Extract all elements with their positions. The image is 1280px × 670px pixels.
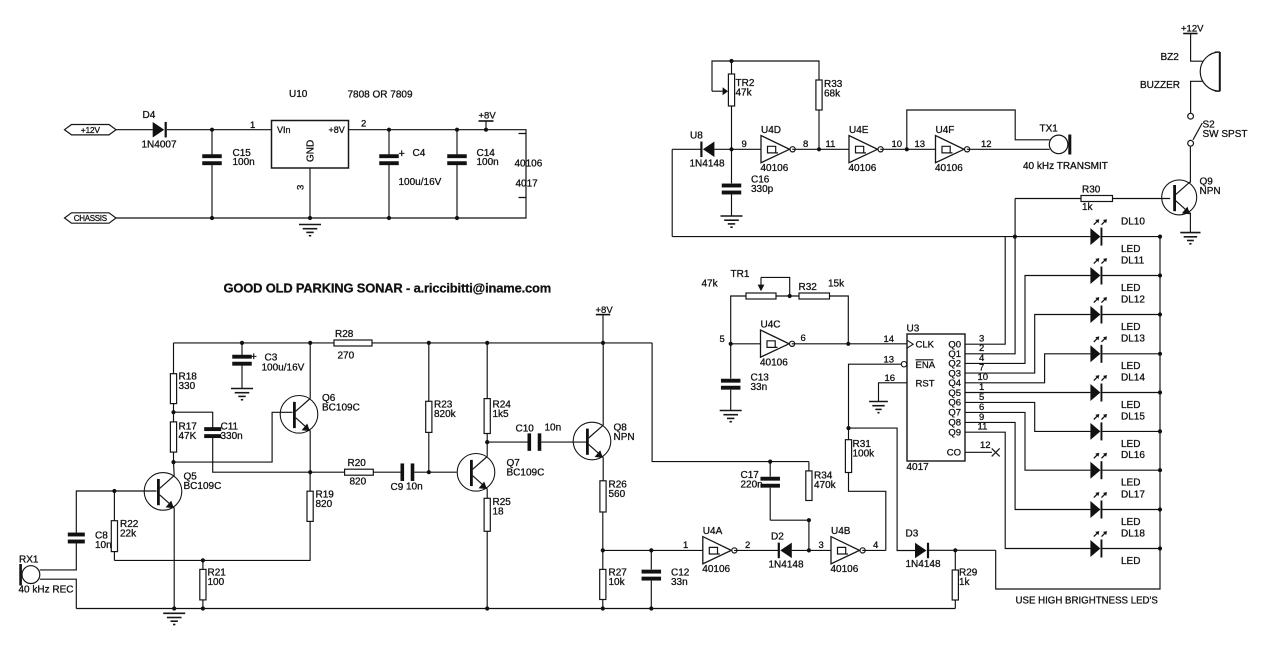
svg-text:NPN: NPN (1200, 186, 1221, 197)
resistor R34 (808, 462, 810, 471)
svg-text:U8: U8 (690, 131, 703, 142)
wire feedback row R22 to R19 (114, 552, 310, 560)
svg-text:CHASSIS: CHASSIS (74, 214, 107, 223)
wire Q5 base net (76, 491, 156, 533)
svg-text:2: 2 (361, 119, 366, 130)
node R21 bottom at rail (201, 606, 205, 610)
node Q6 collector at rail (308, 341, 312, 345)
svg-text:U4C: U4C (761, 319, 781, 330)
wire U3 Q0 to LED DL10 (965, 237, 1090, 345)
wire DL17 cathode to bus (1102, 509, 1160, 511)
resistor R23 (428, 343, 430, 401)
svg-text:U4E: U4E (849, 125, 869, 136)
svg-text:RST: RST (916, 379, 935, 390)
wire Q8 collector to rail (602, 343, 604, 425)
wire LED cathode bus (996, 237, 1160, 589)
svg-text:40106: 40106 (849, 163, 877, 174)
svg-text:1: 1 (683, 540, 688, 551)
diode D3 (915, 543, 929, 559)
svg-text:22k: 22k (120, 529, 137, 540)
wire U10 GND pin 3 (309, 168, 311, 218)
svg-text:D2: D2 (771, 532, 784, 543)
node C3 junction (240, 341, 244, 345)
svg-text:33n: 33n (671, 577, 688, 588)
node +8V entry (601, 341, 605, 345)
node D2/R34/U4B junction (807, 548, 811, 552)
LED DL14 (1090, 375, 1107, 401)
node Q5 collector junction (171, 460, 175, 464)
node C12 junction (649, 548, 653, 552)
svg-text:13: 13 (915, 139, 926, 150)
node TR1 wiper junction (788, 294, 792, 298)
svg-text:2: 2 (745, 540, 750, 551)
wire chassis ground rail (116, 198, 526, 219)
transducer RX1 (19, 564, 22, 586)
svg-text:33n: 33n (751, 382, 768, 393)
svg-text:12: 12 (981, 139, 992, 150)
svg-text:U10: U10 (289, 89, 308, 100)
svg-text:330p: 330p (751, 184, 774, 195)
resistor R29 (954, 550, 956, 570)
svg-text:47K: 47K (179, 431, 197, 442)
wire U3 Q4 to LED DL13 (965, 354, 1090, 383)
svg-text:C10: C10 (516, 424, 535, 435)
node R18/R17/C11 junction (173, 404, 175, 413)
regulator U10 body (272, 121, 349, 169)
transducer TX1 (1049, 135, 1068, 154)
wire TR1 left to U4C input (731, 296, 746, 344)
wire ENA net (849, 364, 902, 428)
wire Q9 collector to switch (1189, 147, 1191, 183)
wire U3 Q2 to LED DL11 (965, 276, 1090, 364)
svg-text:100: 100 (208, 577, 225, 588)
svg-text:BZ2: BZ2 (1161, 52, 1180, 63)
wire C10 to Q8 base (541, 441, 587, 443)
wire Q5 collector to Q6 base (174, 412, 293, 462)
wire DL16 cathode to bus (1102, 469, 1160, 471)
svg-text:DL10: DL10 (1121, 217, 1145, 228)
svg-text:270: 270 (338, 351, 355, 362)
wire U3 CO stub (965, 451, 992, 453)
node R27 bottom at rail (601, 606, 605, 610)
counter U3 body (907, 334, 965, 461)
ground below C13 (720, 411, 742, 422)
wire Q7 collector to C10 node (486, 442, 488, 456)
svg-text:820: 820 (350, 477, 367, 488)
wire oscillator top feedback (712, 61, 819, 91)
svg-text:1N4148: 1N4148 (769, 560, 804, 571)
transistor Q8 (573, 422, 611, 460)
wire U10 output pin 2 rail (349, 130, 527, 134)
resistor R22 (113, 491, 115, 521)
resistor R33 (816, 80, 822, 110)
inverter U4E (849, 136, 883, 163)
svg-text:10n: 10n (95, 540, 112, 551)
ground below Q9 (1180, 233, 1200, 244)
power bracket to 40106 and 4017 supplies (519, 134, 527, 198)
node U4C input junction (729, 342, 733, 346)
inverter U4B (831, 537, 865, 564)
wire Q9 emitter to ground (1189, 213, 1191, 233)
node bus junction DL14 (1158, 390, 1162, 394)
svg-text:R28: R28 (335, 329, 354, 340)
svg-text:68k: 68k (824, 89, 841, 100)
svg-text:330n: 330n (221, 431, 243, 442)
wire DL14 cathode to bus (1102, 392, 1160, 394)
svg-text:1k: 1k (1082, 202, 1094, 213)
resistor R30 (1081, 196, 1113, 202)
wire node to U4D input (732, 148, 762, 150)
node R23 bottom junction (427, 470, 431, 474)
wire R31 bottom to U4B output (849, 473, 886, 551)
wire Q6 emitter to node (309, 431, 311, 473)
trimmer TR2 (731, 61, 733, 74)
svg-text:RX1: RX1 (19, 555, 39, 566)
svg-text:LED: LED (1121, 556, 1140, 567)
svg-text:LED: LED (1121, 517, 1140, 528)
resistor R18 (173, 343, 175, 374)
transistor Q6 (280, 396, 318, 434)
node Q6 emitter junction (308, 470, 312, 474)
wire U4E out to U4F in (880, 148, 935, 150)
svg-text:NPN: NPN (614, 432, 635, 443)
svg-text:+8V: +8V (596, 305, 614, 316)
svg-text:10k: 10k (609, 577, 626, 588)
svg-text:DL14: DL14 (1121, 372, 1145, 383)
svg-text:3: 3 (819, 540, 824, 551)
svg-text:47k: 47k (702, 279, 719, 290)
wire +12V to buzzer (1191, 34, 1203, 62)
resistor R28 in rail (334, 340, 372, 346)
node R29 top junction (953, 548, 957, 552)
svg-text:DL13: DL13 (1121, 334, 1145, 345)
wire RX1 bottom to ground rail (40, 579, 77, 608)
svg-text:3: 3 (296, 185, 307, 190)
wire U4A out to D2 (734, 549, 779, 551)
node R22 junction (112, 489, 116, 493)
node R25 bottom at rail (485, 606, 489, 610)
svg-text:40106: 40106 (761, 163, 789, 174)
svg-text:+8V: +8V (329, 125, 345, 135)
node R26/R27 junction (601, 548, 605, 552)
LED DL10 (1090, 219, 1107, 245)
LED DL18 (1090, 531, 1107, 557)
svg-text:47k: 47k (736, 88, 753, 99)
svg-text:U4A: U4A (703, 526, 723, 537)
svg-text:LED: LED (1121, 244, 1140, 255)
svg-text:DL18: DL18 (1121, 528, 1145, 539)
capacitor C14 (456, 130, 458, 155)
node R24 top at rail (485, 341, 489, 345)
svg-text:330: 330 (179, 381, 196, 392)
wire R32 to U4C output (830, 296, 849, 344)
svg-text:10n: 10n (406, 482, 423, 493)
wire DL13 cathode to bus (1102, 353, 1160, 355)
svg-text:U4B: U4B (831, 526, 851, 537)
wire R30 row to Q9 base (1015, 198, 1081, 200)
ground below C3 (231, 389, 253, 400)
wire DL11 cathode to bus (1102, 275, 1160, 277)
wire U4C out to U3 CLK (792, 343, 907, 345)
wire U8 anode to node (714, 148, 731, 150)
svg-text:GND: GND (306, 140, 317, 162)
svg-text:470k: 470k (814, 480, 837, 491)
svg-text:R30: R30 (1082, 185, 1101, 196)
svg-text:40106: 40106 (760, 357, 788, 368)
svg-text:U4D: U4D (761, 125, 781, 136)
wire Q6 emitter to R20 (310, 471, 344, 473)
svg-text:+: + (399, 148, 405, 160)
svg-text:LED: LED (1121, 439, 1140, 450)
svg-text:DL11: DL11 (1121, 255, 1145, 266)
svg-text:CLK: CLK (916, 340, 935, 351)
svg-text:U3: U3 (907, 324, 920, 335)
resistor R21 (202, 560, 204, 569)
svg-text:40106: 40106 (935, 163, 963, 174)
capacitor C11 (204, 427, 221, 438)
wire R34 bottom to row (808, 520, 810, 550)
svg-text:U4F: U4F (936, 125, 955, 136)
wire Q7 emitter to R25 (486, 489, 488, 499)
svg-text:Q9: Q9 (948, 428, 961, 439)
node CHASSIS tag (65, 213, 117, 223)
wire R20 to C9 (373, 471, 400, 473)
capacitor C10 (528, 433, 542, 451)
transistor Q9 (1162, 180, 1197, 215)
node bus junction DL18 (1158, 546, 1162, 550)
capacitor C8 (68, 533, 85, 544)
svg-text:1k5: 1k5 (493, 409, 510, 420)
svg-text:1k: 1k (959, 577, 971, 588)
svg-text:40106: 40106 (702, 564, 730, 575)
LED DL13 (1090, 336, 1107, 362)
buzzer BZ2 (1200, 52, 1220, 91)
wire +12V tag to D4 anode (116, 129, 153, 131)
svg-text:100n: 100n (233, 157, 255, 168)
capacitor C9 (401, 463, 415, 481)
inverter U4D (761, 136, 795, 163)
svg-text:C9: C9 (391, 482, 404, 493)
capacitor C4 electrolytic (388, 130, 390, 155)
svg-text:R32: R32 (799, 282, 818, 293)
wire +8V distribution rail (174, 342, 653, 344)
LED DL11 (1090, 258, 1107, 284)
node bus junction DL13 (1158, 352, 1162, 356)
svg-text:820k: 820k (434, 409, 457, 420)
wire U4C input (731, 343, 761, 345)
svg-text:DL16: DL16 (1121, 450, 1145, 461)
resistor R32 (799, 293, 830, 299)
wire C17 to R34 bottom (770, 519, 809, 521)
wire U3 Q1 to buzzer driver R30 (965, 199, 1015, 354)
wire switch to buzzer (1191, 81, 1203, 113)
svg-text:220n: 220n (741, 480, 763, 491)
wire U3 Q5 to LED DL14 (965, 392, 1090, 394)
wire ENA node to D3 anode (849, 428, 916, 550)
svg-text:1N4148: 1N4148 (690, 159, 725, 170)
wire C10 row (487, 441, 527, 443)
svg-text:7808 OR 7809: 7808 OR 7809 (348, 90, 413, 101)
node R30 tap junction on DL10 row (1013, 235, 1017, 239)
svg-text:4: 4 (873, 540, 878, 551)
svg-text:DL12: DL12 (1121, 294, 1145, 305)
svg-text:+: + (251, 351, 257, 363)
wire DL15 cathode to bus (1102, 430, 1160, 432)
diode D2 (778, 543, 792, 559)
svg-text:4017: 4017 (907, 462, 930, 473)
svg-text:LED: LED (1121, 361, 1140, 372)
node oscillator RC node (729, 147, 733, 151)
wire main signal row Q8 collector node to U4A (603, 549, 703, 551)
U3 CLK pin marker (907, 340, 913, 348)
node R23 top at rail (427, 341, 431, 345)
ground below U10 (299, 225, 321, 236)
wire U3 Q6 to LED DL15 (965, 402, 1090, 431)
svg-text:D4: D4 (143, 110, 156, 121)
resistor R24 (486, 343, 488, 399)
wire Q6 collector to rail (309, 343, 311, 399)
svg-text:100u/16V: 100u/16V (399, 177, 442, 188)
wire U3 Q9 to LED DL18 (965, 432, 1090, 548)
resistor R27 (602, 550, 604, 569)
svg-text:BC109C: BC109C (322, 403, 360, 414)
trimmer TR1 (746, 293, 776, 299)
svg-text:1N4007: 1N4007 (142, 140, 177, 151)
node bus junction DL11 (1158, 273, 1162, 277)
wire DL18 cathode to bus (1102, 548, 1160, 550)
svg-text:BC109C: BC109C (507, 468, 545, 479)
svg-text:11: 11 (826, 139, 836, 150)
resistor R25 (484, 498, 490, 531)
svg-text:14: 14 (884, 334, 895, 345)
capacitor C15 (211, 130, 213, 155)
svg-text:+8V: +8V (479, 111, 497, 122)
wire TX1 drive loop (907, 110, 1050, 149)
wire RST to ground (879, 383, 908, 402)
svg-text:LED: LED (1121, 478, 1140, 489)
wire C9 to Q7 base (414, 471, 456, 473)
wire D3 cathode to R29 and LED return (929, 549, 996, 551)
wire receiver ground rail (76, 608, 955, 610)
svg-text:820: 820 (316, 499, 333, 510)
svg-text:TR1: TR1 (731, 269, 750, 280)
resistor R26 (600, 481, 606, 512)
svg-text:6: 6 (801, 333, 806, 344)
svg-text:18: 18 (493, 507, 505, 518)
wire DL12 cathode to bus (1102, 314, 1160, 316)
node Q7 collector junction (485, 440, 489, 444)
transistor Q5 (144, 473, 182, 511)
LED DL15 (1090, 414, 1107, 440)
svg-text:12: 12 (980, 440, 991, 451)
node bus junction DL12 (1158, 312, 1162, 316)
node junction C14 bottom (455, 216, 459, 220)
svg-text:LED: LED (1121, 322, 1140, 333)
node bus junction DL15 (1158, 429, 1162, 433)
svg-text:CO: CO (947, 448, 961, 459)
svg-text:BC109C: BC109C (184, 481, 222, 492)
svg-text:LED: LED (1121, 400, 1140, 411)
svg-text:40106: 40106 (831, 564, 859, 575)
svg-text:560: 560 (609, 489, 626, 500)
inverter U4F (936, 136, 970, 163)
U3 CO no-connect X (992, 448, 1000, 456)
node +8V power symbol (484, 128, 488, 132)
node junction C4 bottom (387, 216, 391, 220)
node Q5 emitter at rail (172, 606, 176, 610)
capacitor C16 (731, 149, 733, 183)
capacitor C12 (650, 550, 652, 569)
node junction C15 top (210, 128, 214, 132)
svg-text:5: 5 (720, 334, 725, 345)
svg-text:BUZZER: BUZZER (1140, 80, 1180, 91)
svg-text:VIn: VIn (277, 125, 291, 135)
resistor R17 (170, 422, 176, 452)
capacitor C3 electrolytic (241, 343, 243, 355)
svg-text:9: 9 (742, 139, 747, 150)
node U4E output junction (905, 147, 909, 151)
ground below C16 (721, 216, 743, 227)
svg-text:+12V: +12V (81, 125, 101, 135)
node junction U10 gnd at rail (308, 216, 312, 220)
svg-text:8: 8 (803, 139, 808, 150)
wire U3 Q3 to LED DL12 (965, 315, 1090, 374)
node +12V input tag (65, 125, 117, 135)
svg-text:10: 10 (892, 139, 903, 150)
inverter U4A (703, 537, 737, 564)
node clock feedback junction (846, 342, 850, 346)
inverter U4C (761, 330, 795, 357)
svg-text:SW SPST: SW SPST (1203, 129, 1248, 140)
svg-text:40 kHz TRANSMIT: 40 kHz TRANSMIT (1023, 161, 1108, 172)
wire Q5 emitter to ground rail (173, 508, 175, 609)
svg-text:13: 13 (884, 354, 895, 365)
node C17 top junction (768, 460, 772, 464)
wire gate feedback down-left (672, 148, 701, 150)
diode U8 (700, 142, 714, 158)
switch S2 (1188, 113, 1194, 119)
diode D4 (153, 122, 167, 138)
wire U4F out to TX1 (967, 148, 1050, 150)
capacitor C17 (769, 462, 771, 477)
ground at U3 RST (869, 402, 888, 413)
node TR2 top junction (729, 59, 733, 63)
capacitor C13 (730, 344, 732, 379)
wire Q5 collector stub (173, 462, 176, 476)
transistor Q7 (457, 454, 495, 492)
LED DL12 (1090, 297, 1107, 323)
svg-text:LED: LED (1121, 283, 1140, 294)
wire TR1 to R32 (776, 295, 799, 297)
svg-text:USE HIGH BRIGHTNESS LED'S: USE HIGH BRIGHTNESS LED'S (1016, 596, 1159, 607)
resistor R19 (309, 472, 311, 491)
svg-text:15k: 15k (828, 279, 845, 290)
node junction C4 top (387, 128, 391, 132)
node R33 bottom junction (817, 147, 821, 151)
wire DL10 cathode to bus (1102, 236, 1160, 238)
svg-text:R20: R20 (348, 458, 367, 469)
node bus junction DL16 (1158, 468, 1162, 472)
wire D2 anode to U4B input (792, 549, 831, 551)
svg-text:C4: C4 (413, 148, 426, 159)
svg-text:100n: 100n (477, 157, 499, 168)
U3 ENA input bubble (901, 362, 906, 367)
svg-text:1: 1 (250, 120, 255, 131)
node bus junction DL10 (1158, 235, 1162, 239)
node junction C14 top (455, 128, 459, 132)
svg-text:100u/16V: 100u/16V (262, 363, 305, 374)
wire D4 to U10 Vin pin 1 (167, 129, 272, 131)
